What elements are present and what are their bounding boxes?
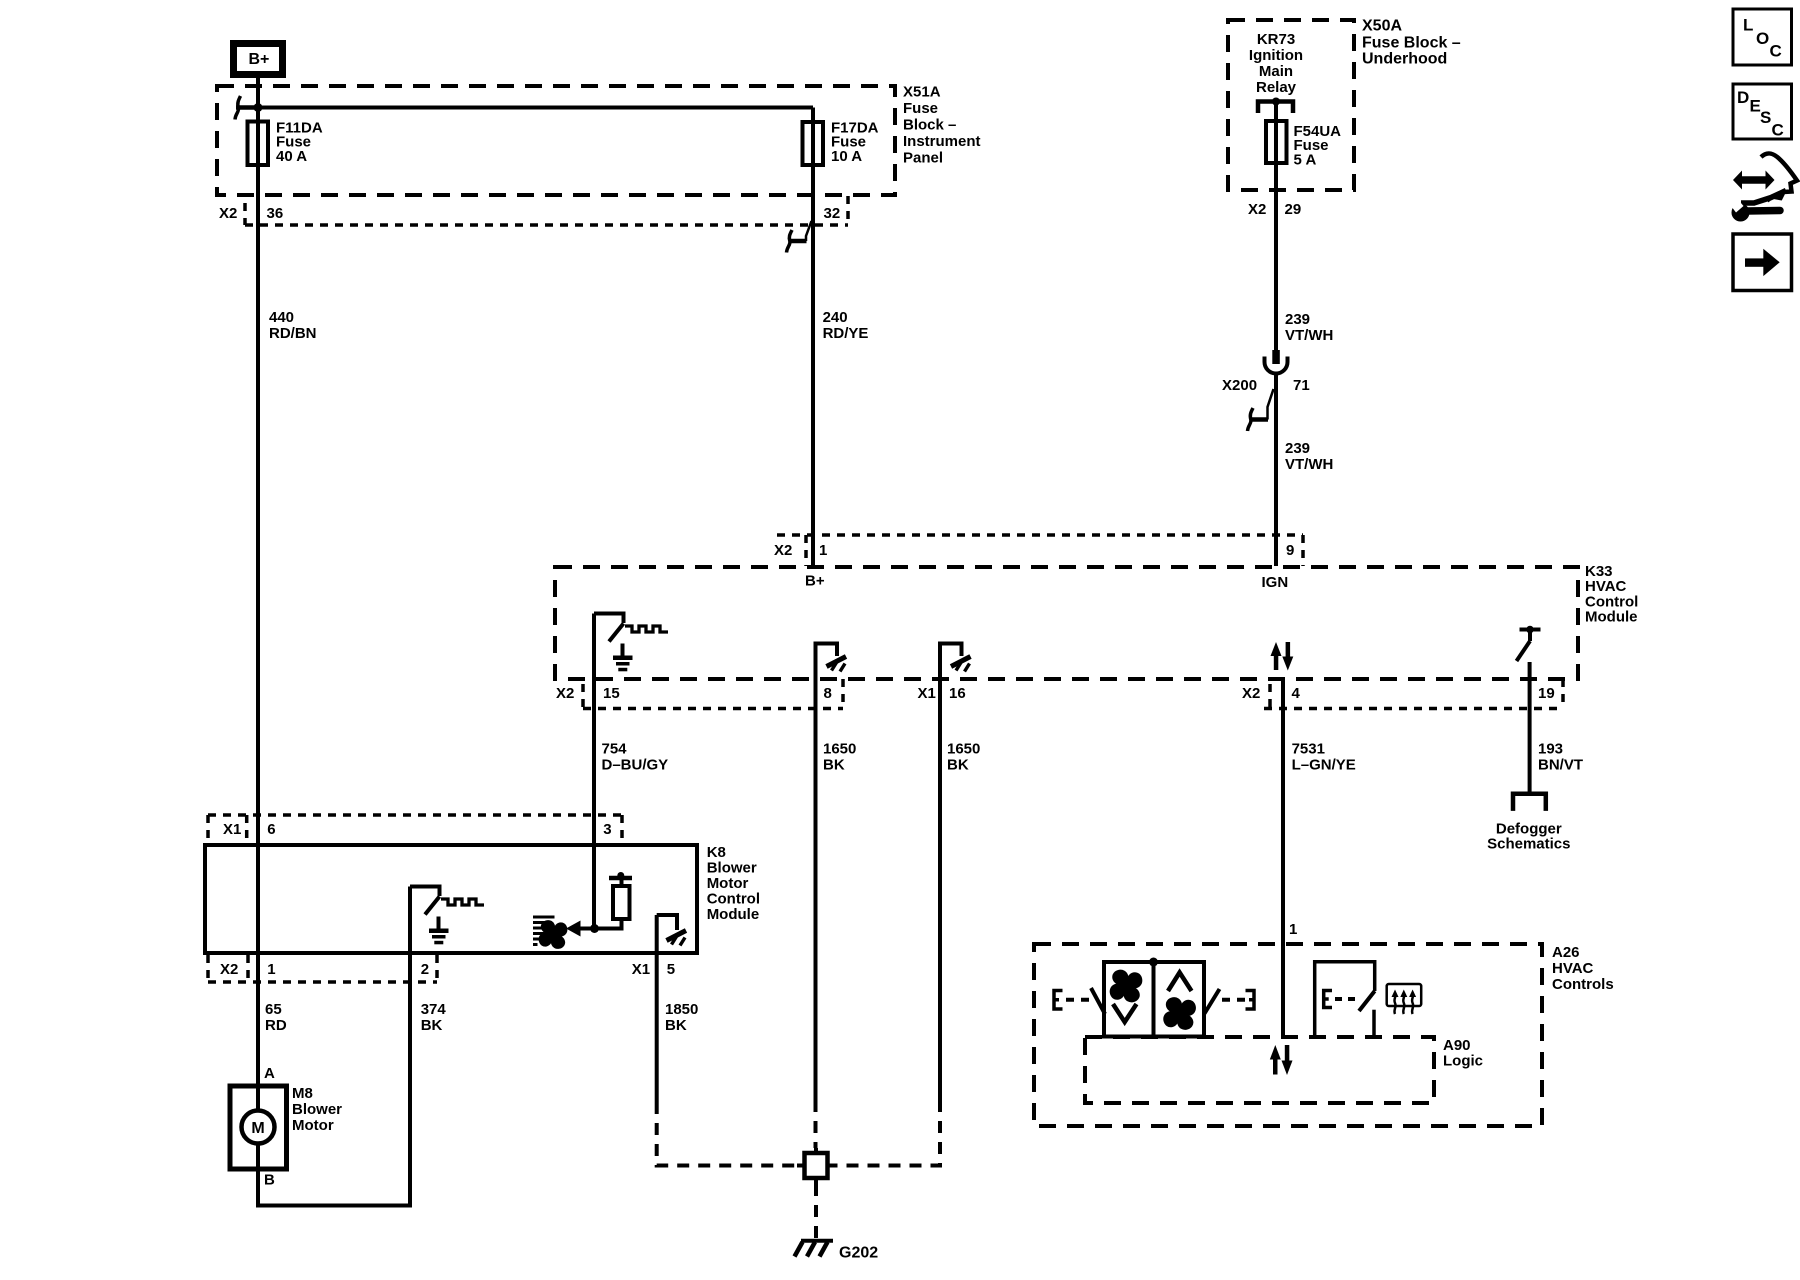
svg-text:X2: X2	[1248, 201, 1266, 218]
svg-text:71: 71	[1293, 377, 1310, 394]
defrost icon	[1387, 984, 1422, 1014]
svg-text:A90: A90	[1443, 1037, 1471, 1054]
svg-text:X50A: X50A	[1362, 18, 1402, 35]
pin labels X2 36 32	[219, 205, 840, 222]
svg-text:X2: X2	[1242, 685, 1260, 702]
K33 internal ground at pin 16	[940, 644, 971, 672]
svg-text:M: M	[251, 1120, 264, 1137]
svg-text:65: 65	[265, 1001, 282, 1018]
right contact reversed E bracket	[1246, 991, 1255, 1010]
svg-text:C: C	[1772, 120, 1784, 139]
label 240 RD/YE	[823, 309, 869, 342]
chevron down in down button	[1113, 1004, 1137, 1022]
label 239 VT/WH upper	[1285, 311, 1333, 344]
svg-text:B: B	[264, 1172, 275, 1189]
off-page connector to Defogger Schematics	[1487, 794, 1570, 853]
svg-text:IGN: IGN	[1262, 574, 1289, 591]
left switch blade	[1091, 988, 1105, 1014]
module K8 Blower Motor Control Module box	[205, 845, 697, 953]
svg-text:1: 1	[1289, 921, 1297, 938]
wire B+ vertical 440 RD/BN trunk	[256, 78, 260, 1110]
svg-text:16: 16	[949, 685, 966, 702]
svg-text:3: 3	[603, 821, 611, 838]
label 1850 BK	[665, 1001, 698, 1034]
svg-text:X2: X2	[220, 961, 238, 978]
right switch blade	[1205, 989, 1220, 1014]
svg-text:1: 1	[267, 961, 275, 978]
svg-text:240: 240	[823, 309, 848, 326]
K33 internal switch at pin 19	[1517, 626, 1541, 661]
motor M8 circle	[242, 1111, 275, 1144]
svg-text:29: 29	[1285, 201, 1302, 218]
left contact E bracket	[1054, 991, 1063, 1010]
svg-text:8: 8	[824, 685, 832, 702]
terminal label A	[264, 1065, 275, 1082]
module K33 HVAC Control Module dashed box	[555, 567, 1578, 679]
wire 1650 BK dashed from pin 8 to splice	[814, 1100, 818, 1148]
icon diagnostic hand with arrows and wrench	[1726, 153, 1797, 221]
svg-text:19: 19	[1538, 685, 1555, 702]
svg-text:C: C	[1770, 42, 1782, 61]
dashes left	[1066, 998, 1090, 1002]
svg-text:36: 36	[267, 205, 284, 222]
connector row X1 6/3 top of K8	[208, 815, 622, 843]
svg-text:1850: 1850	[665, 1001, 698, 1018]
node junction on button boxes	[1149, 958, 1158, 967]
svg-text:Blower: Blower	[292, 1101, 342, 1118]
connector row X2 1/2 bottom of K8	[208, 955, 437, 982]
svg-text:374: 374	[421, 1001, 447, 1018]
wire 193 BN/VT from pin 19	[1528, 662, 1532, 794]
svg-text:L: L	[1743, 16, 1753, 35]
fan icon in down button	[1106, 966, 1146, 1006]
svg-text:BK: BK	[947, 757, 969, 774]
svg-text:Underhood: Underhood	[1362, 51, 1447, 68]
wire 1850 BK from pin 5	[655, 915, 659, 1102]
svg-text:D–BU/GY: D–BU/GY	[602, 757, 669, 774]
fuse block X50A dashed box	[1228, 20, 1354, 190]
K33 internal switch with PWM and ground at pin 15	[594, 614, 668, 672]
svg-text:Motor: Motor	[292, 1117, 334, 1134]
K33 internal ground at pin 8	[816, 644, 847, 672]
pin labels X200 71	[1222, 377, 1310, 394]
pin labels X1 6 3	[223, 821, 612, 838]
svg-text:239: 239	[1285, 440, 1310, 457]
wire continuation hook at X200	[1248, 389, 1274, 431]
svg-text:X1: X1	[632, 961, 650, 978]
svg-text:B+: B+	[249, 51, 270, 68]
wire 1650 BK dashed from pin 16 to splice	[836, 1100, 940, 1166]
svg-text:X2: X2	[556, 685, 574, 702]
defog E bracket	[1324, 991, 1332, 1008]
wire 1650 BK from pin 16	[938, 642, 942, 1101]
B+ battery feed box	[234, 44, 283, 75]
connector row X2 15/8 bottom of K33	[583, 679, 843, 709]
bidirectional arrows in A90	[1270, 1045, 1293, 1075]
svg-text:Instrument: Instrument	[903, 133, 981, 150]
svg-text:2: 2	[421, 961, 429, 978]
label 7531 L-GN/YE	[1292, 741, 1356, 774]
wire 754 D-BU/GY from pin 15 to K8 pin 3	[592, 614, 596, 929]
label KR73 Ignition Main Relay	[1249, 31, 1303, 96]
wire 1850 BK dashed to splice	[657, 1102, 797, 1166]
wire continuation hook at pin 32	[787, 221, 812, 253]
svg-text:Blower: Blower	[707, 860, 757, 877]
svg-text:BN/VT: BN/VT	[1538, 757, 1583, 774]
air speed wedge bars	[533, 916, 555, 947]
svg-text:4: 4	[1292, 685, 1301, 702]
connector X200 inline	[1265, 350, 1288, 374]
svg-text:1: 1	[819, 542, 827, 559]
wire dashed splice to G202	[814, 1184, 818, 1238]
pin label 1 at A26	[1289, 921, 1297, 938]
icon DESC box	[1733, 84, 1792, 139]
svg-text:K8: K8	[707, 844, 726, 861]
terminal label B	[264, 1172, 275, 1189]
svg-text:G202: G202	[839, 1245, 878, 1262]
svg-text:Control: Control	[707, 891, 760, 908]
svg-text:RD/BN: RD/BN	[269, 325, 317, 342]
svg-text:5 A: 5 A	[1294, 151, 1317, 168]
svg-text:Module: Module	[1585, 609, 1638, 626]
svg-text:Controls: Controls	[1552, 976, 1614, 993]
connector row X2 4/19 bottom of K33	[1264, 679, 1563, 709]
svg-text:Fuse: Fuse	[903, 100, 938, 117]
fan down button box	[1104, 962, 1154, 1037]
wire from relay to fuse F54UA	[1274, 102, 1278, 351]
node K8 output junction	[590, 924, 599, 933]
label 239 VT/WH lower	[1285, 440, 1333, 473]
node B+ label under pin 1	[805, 573, 825, 590]
node B+ junction	[254, 103, 263, 112]
svg-text:X2: X2	[219, 205, 237, 222]
connector row X2 1/9 top of K33	[777, 535, 1303, 566]
fan icon in up button	[1160, 994, 1200, 1034]
svg-text:Relay: Relay	[1256, 79, 1297, 96]
svg-text:D: D	[1737, 88, 1749, 107]
svg-text:Motor: Motor	[707, 875, 749, 892]
svg-text:X200: X200	[1222, 377, 1257, 394]
label 1650 BK right	[947, 741, 980, 774]
wire 240 RD/YE down from pin 32	[811, 108, 815, 567]
fan icon in K8	[535, 917, 570, 952]
svg-text:HVAC: HVAC	[1552, 960, 1594, 977]
svg-text:440: 440	[269, 309, 294, 326]
svg-text:A26: A26	[1552, 944, 1580, 961]
svg-text:X2: X2	[774, 542, 792, 559]
svg-text:M8: M8	[292, 1085, 313, 1102]
svg-text:193: 193	[1538, 741, 1563, 758]
relay KR73 contact symbol	[1258, 98, 1293, 114]
svg-text:L–GN/YE: L–GN/YE	[1292, 757, 1356, 774]
svg-text:S: S	[1760, 108, 1771, 127]
connector row X2 36/32 of X51A	[245, 196, 848, 225]
defog button lower leg	[1372, 1010, 1376, 1037]
svg-text:BK: BK	[823, 757, 845, 774]
K8 internal switch with PWM and ground at pin 2	[410, 887, 484, 945]
svg-text:239: 239	[1285, 311, 1310, 328]
svg-text:A: A	[264, 1065, 275, 1082]
wire 374 BK return from pin 2	[258, 887, 410, 1206]
splice block junction	[797, 1148, 836, 1184]
svg-text:32: 32	[824, 205, 841, 222]
label 65 RD	[265, 1001, 287, 1034]
svg-text:Ignition: Ignition	[1249, 47, 1303, 64]
pin labels X2 29	[1248, 201, 1301, 218]
wire continuation hook at B+ junction	[235, 96, 256, 120]
label 374 BK	[421, 1001, 447, 1034]
fan up button box	[1154, 962, 1205, 1037]
svg-text:9: 9	[1286, 542, 1294, 559]
label K33 HVAC Control Module	[1585, 563, 1638, 626]
svg-text:VT/WH: VT/WH	[1285, 327, 1333, 344]
svg-text:BK: BK	[421, 1017, 443, 1034]
svg-text:1650: 1650	[823, 741, 856, 758]
svg-text:KR73: KR73	[1257, 31, 1295, 48]
motor M8 box	[230, 1086, 287, 1169]
fuse block X51A dashed box	[217, 86, 895, 195]
svg-text:6: 6	[267, 821, 275, 838]
logic block A90 dashed box	[1085, 1037, 1434, 1103]
pin labels X2 15 8 X1 16 X2 4 19	[556, 685, 1555, 702]
label 1650 BK left	[823, 741, 856, 774]
wire 1650 BK from pin 8	[814, 642, 818, 1101]
svg-text:10 A: 10 A	[831, 148, 862, 165]
label 754 D-BU/GY	[602, 741, 669, 774]
label K8 Blower Motor Control Module	[707, 844, 760, 923]
K8 internal ground at pin 5	[657, 915, 686, 946]
svg-text:X51A: X51A	[903, 84, 941, 101]
K8 internal driver: T-bar with node	[609, 872, 632, 886]
fuse F54UA 5A	[1266, 121, 1341, 168]
wire B+ bus horizontal to F17DA	[258, 106, 813, 110]
node IGN label under pin 9	[1262, 574, 1289, 591]
svg-text:15: 15	[603, 685, 620, 702]
svg-text:B+: B+	[805, 573, 825, 590]
svg-text:Main: Main	[1259, 63, 1293, 80]
label A26 HVAC Controls	[1552, 944, 1614, 993]
svg-text:Panel: Panel	[903, 149, 943, 166]
dashes right	[1222, 998, 1246, 1002]
svg-text:40 A: 40 A	[276, 148, 307, 165]
svg-text:1650: 1650	[947, 741, 980, 758]
svg-text:754: 754	[602, 741, 628, 758]
svg-text:Module: Module	[707, 906, 760, 923]
svg-text:O: O	[1756, 29, 1769, 48]
svg-text:5: 5	[667, 961, 675, 978]
svg-text:BK: BK	[665, 1017, 687, 1034]
K33 bidirectional arrows at pin 4	[1271, 642, 1294, 671]
label M8 Blower Motor	[292, 1085, 342, 1134]
svg-text:Logic: Logic	[1443, 1053, 1483, 1070]
ground G202	[795, 1241, 879, 1262]
chevron up in up button	[1168, 973, 1192, 992]
svg-text:RD: RD	[265, 1017, 287, 1034]
svg-text:7531: 7531	[1292, 741, 1325, 758]
svg-text:VT/WH: VT/WH	[1285, 456, 1333, 473]
pin labels X2 1 2 X1 5	[220, 961, 675, 978]
svg-text:RD/YE: RD/YE	[823, 325, 869, 342]
fuse F17DA 10A	[803, 120, 879, 166]
arrow to blower fan	[566, 921, 595, 937]
wire 7531 L-GN/YE from pin 4 to A26	[1281, 679, 1285, 1037]
defog switch blade	[1359, 991, 1375, 1011]
label A90 Logic	[1443, 1037, 1483, 1070]
wire resistor to output node	[595, 919, 622, 929]
icon LOC box	[1733, 9, 1792, 65]
label 193 BN/VT	[1538, 741, 1583, 774]
svg-text:Block –: Block –	[903, 117, 956, 134]
svg-text:X1: X1	[918, 685, 936, 702]
svg-text:X1: X1	[223, 821, 241, 838]
icon forward arrow box	[1733, 234, 1792, 291]
defog dashes	[1335, 997, 1356, 1001]
label 440 RD/BN	[269, 309, 317, 342]
label X51A Fuse Block Instrument Panel	[903, 84, 981, 167]
fuse F11DA 40A	[248, 120, 323, 166]
K8 internal resistor element	[613, 886, 630, 919]
defog button housing	[1315, 962, 1375, 1037]
pin labels X2 1 9	[774, 542, 1294, 559]
svg-text:Schematics: Schematics	[1487, 836, 1570, 853]
wire 239 VT/WH below X200	[1274, 374, 1278, 567]
label X50A Fuse Block Underhood	[1362, 18, 1461, 68]
svg-text:Fuse Block –: Fuse Block –	[1362, 35, 1461, 52]
module A26 HVAC Controls dashed box	[1034, 944, 1542, 1126]
